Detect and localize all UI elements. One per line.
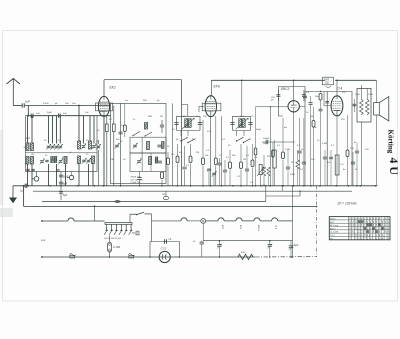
svg-text:8: 8	[373, 222, 375, 224]
antenna	[7, 79, 21, 106]
tube CL4	[331, 96, 343, 116]
svg-text:4 U: 4 U	[387, 158, 400, 176]
switch S1	[180, 137, 195, 143]
svg-text:2: 2	[352, 222, 354, 224]
voltage selector	[104, 223, 132, 235]
capacitor C15	[174, 123, 178, 125]
svg-text:2M: 2M	[310, 116, 313, 118]
rectifier box	[150, 242, 179, 258]
svg-text:8µF: 8µF	[63, 183, 68, 186]
coil L13b	[155, 157, 157, 163]
svg-text:osz: osz	[125, 100, 128, 102]
svg-text:LW: LW	[160, 116, 164, 118]
capacitor C23	[248, 123, 252, 125]
svg-text:4: 4	[352, 225, 354, 227]
svg-text:CY 2: CY 2	[330, 235, 335, 237]
svg-text:Cl 4: Cl 4	[337, 86, 343, 90]
wire bus 2	[28, 115, 110, 117]
wire CL4 top	[336, 80, 338, 96]
capacitor C16	[198, 123, 202, 125]
svg-text:25: 25	[86, 154, 89, 156]
svg-text:0.1µF 150: 0.1µF 150	[131, 182, 142, 184]
wire vert a2	[31, 116, 33, 143]
svg-text:MW: MW	[26, 138, 31, 140]
wire trafo bottom	[360, 122, 362, 186]
coil L2	[31, 143, 34, 151]
variable capacitor CV4	[81, 144, 86, 150]
polarized capacitor C41	[289, 241, 299, 257]
wire input drop	[27, 106, 29, 117]
wire left drop	[23, 185, 25, 206]
capacitor C30	[302, 101, 306, 186]
svg-text:0.25: 0.25	[207, 131, 212, 133]
svg-text:50: 50	[306, 112, 309, 114]
switch S3 line	[130, 213, 136, 215]
svg-text:30: 30	[44, 140, 47, 142]
capacitor C25	[271, 90, 280, 102]
svg-text:128: 128	[203, 116, 207, 118]
svg-text:ZF = 128 kHz: ZF = 128 kHz	[337, 202, 358, 206]
wire heater left up	[94, 206, 95, 221]
capacitor C38	[193, 241, 204, 257]
capacitor C10	[118, 132, 122, 134]
svg-text:7: 7	[361, 228, 363, 230]
svg-text:6: 6	[385, 228, 387, 230]
wire EF9 bottom	[210, 116, 212, 186]
svg-text:1: 1	[355, 225, 357, 227]
resistor R12	[254, 130, 257, 187]
svg-text:1: 1	[367, 219, 369, 221]
svg-text:2: 2	[358, 232, 360, 234]
svg-text:150: 150	[350, 148, 354, 150]
svg-text:4: 4	[349, 228, 351, 230]
svg-text:9: 9	[367, 235, 369, 237]
capacitor C6	[20, 184, 27, 193]
svg-text:300: 300	[24, 147, 27, 149]
coil L9	[64, 157, 67, 164]
capacitor C36	[114, 201, 120, 203]
trimmer C11	[160, 120, 164, 133]
capacitor C4c	[31, 169, 34, 170]
brand text	[387, 130, 400, 176]
svg-text:1n: 1n	[317, 140, 320, 142]
variable capacitor CV8b	[82, 158, 87, 164]
svg-text:5: 5	[364, 222, 366, 224]
svg-text:0.3: 0.3	[306, 92, 310, 94]
capacitor C42	[327, 150, 333, 186]
resistor R11	[251, 144, 254, 186]
svg-text:9: 9	[358, 219, 360, 221]
wire right drop	[316, 186, 318, 257]
wire drop b2	[31, 164, 33, 186]
resistor R7	[202, 120, 205, 186]
svg-text:2: 2	[349, 219, 351, 221]
ZF label	[337, 202, 358, 206]
capacitor C4	[45, 160, 48, 161]
coil L7	[51, 157, 53, 163]
svg-text:100pF: 100pF	[263, 138, 270, 140]
svg-text:EBC3: EBC3	[257, 225, 259, 231]
resistor R4	[167, 152, 170, 186]
svg-text:0.5: 0.5	[250, 182, 254, 184]
svg-text:6: 6	[352, 232, 354, 234]
wire T2 links	[237, 131, 245, 137]
svg-text:9: 9	[379, 219, 381, 221]
grid shield EK2	[96, 103, 113, 111]
svg-text:0.1: 0.1	[206, 150, 210, 152]
coil L1	[26, 143, 29, 151]
wire B1-B2 link	[282, 185, 283, 191]
capacitor C24	[245, 146, 249, 186]
dial lamp	[201, 219, 206, 224]
faint scan border frame	[3, 31, 398, 302]
svg-text:LW: LW	[31, 154, 35, 156]
svg-text:4: 4	[385, 225, 387, 227]
label 300	[24, 147, 27, 149]
resistor R13	[282, 118, 285, 186]
wire drop b6	[78, 164, 80, 186]
IF transformer T2 coils	[236, 118, 249, 129]
wire drop b1	[27, 164, 29, 186]
wire antenna bus	[13, 105, 22, 107]
ground arrow	[10, 186, 17, 203]
svg-text:a w: a w	[41, 239, 45, 242]
coil L5	[26, 157, 29, 165]
stage box top	[104, 80, 182, 186]
svg-text:8µF: 8µF	[63, 194, 68, 197]
wire EK2 bottom drop	[103, 116, 105, 185]
svg-text:1: 1	[388, 225, 390, 227]
svg-text:EK2: EK2	[330, 222, 335, 224]
svg-text:5: 5	[358, 228, 360, 230]
svg-text:pF: pF	[55, 103, 58, 105]
coil L10b	[92, 156, 95, 164]
wire drop b8	[92, 164, 94, 186]
svg-text:9: 9	[379, 235, 381, 237]
resistor R12b	[272, 142, 275, 186]
svg-text:0: 0	[367, 228, 369, 230]
svg-text:1M: 1M	[243, 159, 246, 161]
IF transformer T1 frame	[177, 116, 201, 130]
variable capacitor CV1	[46, 144, 51, 150]
resistor R1	[105, 116, 108, 186]
variable capacitor CV11	[137, 159, 142, 165]
svg-text:6: 6	[358, 225, 360, 227]
detector box	[278, 87, 305, 119]
capacitor C17	[182, 146, 186, 186]
svg-text:6: 6	[385, 219, 387, 221]
svg-text:EBC3: EBC3	[281, 87, 290, 91]
electrolytic C27	[273, 140, 276, 186]
svg-text:CL4: CL4	[275, 225, 277, 230]
svg-text:9: 9	[355, 222, 357, 224]
svg-text:990: 990	[241, 252, 245, 254]
svg-text:6: 6	[349, 235, 351, 237]
IF transformer T1 riser	[182, 105, 188, 117]
wire EBC3 left	[256, 106, 289, 186]
svg-text:50nF: 50nF	[63, 176, 69, 179]
polarized capacitor C39	[217, 240, 222, 257]
svg-text:0: 0	[385, 232, 387, 234]
coil L11	[145, 123, 148, 130]
wire drop b5	[65, 164, 67, 186]
svg-text:9: 9	[373, 219, 375, 221]
capacitor C21	[223, 160, 227, 186]
variable capacitor CV2	[50, 144, 55, 150]
svg-text:2M: 2M	[267, 156, 270, 158]
svg-text:50: 50	[228, 145, 231, 147]
svg-text:0.3: 0.3	[297, 145, 301, 147]
wire EF9 grid	[199, 106, 204, 112]
interstage transformer ZWT	[323, 77, 334, 87]
tube EF9	[205, 96, 216, 117]
svg-text:2nF: 2nF	[72, 103, 76, 105]
svg-text:0.2: 0.2	[246, 155, 250, 157]
svg-text:2: 2	[349, 222, 351, 224]
capacitor C2 inline	[31, 114, 33, 118]
oval component	[162, 191, 169, 200]
svg-text:0: 0	[352, 219, 354, 221]
svg-text:0.1: 0.1	[186, 165, 190, 167]
svg-text:7: 7	[379, 228, 381, 230]
svg-text:8: 8	[379, 232, 381, 234]
svg-text:0.1: 0.1	[277, 145, 281, 147]
bus B3	[42, 201, 266, 203]
capacitor C18	[207, 168, 211, 186]
wire drop b3	[48, 164, 50, 186]
capacitor C26	[302, 90, 306, 101]
IF transformer T2 frame	[233, 116, 251, 130]
svg-text:3: 3	[376, 219, 378, 221]
svg-text:9: 9	[373, 232, 375, 234]
tube CY2 label	[161, 247, 167, 251]
svg-text:EF 9 reg: EF 9 reg	[330, 224, 339, 227]
svg-text:4: 4	[388, 228, 390, 230]
variable capacitor CV7	[58, 159, 63, 165]
wire osc v1	[120, 103, 122, 185]
svg-text:7: 7	[364, 225, 366, 227]
IF transformer T2 riser	[241, 80, 243, 116]
wire CL4 grid	[324, 92, 331, 106]
svg-text:5: 5	[376, 222, 378, 224]
wire vert a1	[27, 116, 29, 143]
tube EK2 label	[110, 86, 116, 90]
svg-text:125: 125	[365, 149, 369, 151]
svg-text:5: 5	[349, 225, 351, 227]
svg-text:EF9: EF9	[214, 85, 220, 89]
frequency table	[329, 217, 390, 241]
svg-text:nF: nF	[193, 241, 196, 243]
svg-text:1M: 1M	[263, 143, 266, 145]
svg-text:EBC3: EBC3	[330, 228, 336, 230]
coupling rect	[335, 155, 344, 175]
wire osc v4	[150, 153, 152, 172]
capacitor C32	[323, 150, 327, 186]
wire vert a6	[78, 105, 80, 141]
svg-text:0.1: 0.1	[331, 145, 335, 147]
svg-text:5k: 5k	[176, 139, 179, 141]
svg-text:1M: 1M	[262, 185, 265, 187]
switch S4	[132, 132, 152, 137]
svg-text:2M: 2M	[196, 152, 199, 154]
capacitor C34	[355, 143, 359, 186]
svg-text:5: 5	[373, 225, 375, 227]
IF transformer T1 coils	[182, 118, 195, 129]
wire to lamp	[152, 214, 201, 242]
jack J2	[67, 172, 74, 180]
variable capacitor CV9	[115, 143, 120, 149]
wire EBC3 top	[293, 80, 295, 100]
svg-text:0.3M: 0.3M	[322, 143, 327, 145]
wire EBC3 bottom	[294, 106, 305, 186]
svg-text:pF: pF	[157, 100, 160, 102]
svg-text:1: 1	[370, 235, 372, 237]
resistor R2	[112, 106, 115, 186]
wire heater left	[41, 218, 105, 222]
svg-text:8µF: 8µF	[294, 244, 299, 247]
fuse F1	[108, 236, 121, 258]
svg-text:2x0.1µF 500: 2x0.1µF 500	[131, 179, 144, 181]
loudspeaker	[374, 80, 389, 186]
svg-text:3: 3	[388, 219, 390, 221]
mains label	[41, 239, 45, 242]
variable capacitor CV10	[133, 143, 138, 149]
wire sw up	[129, 214, 131, 222]
wire pot drop	[265, 185, 267, 196]
resistor R17	[123, 103, 126, 137]
wire cl4 in	[305, 91, 327, 92]
svg-text:T2: T2	[251, 116, 254, 118]
inner box 1	[130, 137, 166, 153]
capacitor C20	[217, 158, 221, 186]
svg-text:110 125 150 220 240: 110 125 150 220 240	[104, 238, 121, 240]
svg-text:1: 1	[382, 225, 384, 227]
svg-text:8: 8	[388, 232, 390, 234]
svg-text:7000: 7000	[355, 94, 361, 96]
svg-text:25n: 25n	[311, 159, 315, 161]
tube EF9 label	[214, 85, 220, 89]
variable capacitor CV5	[92, 144, 97, 150]
variable capacitor CV6	[40, 159, 45, 165]
capacitor C12	[157, 145, 161, 147]
heater labels	[221, 225, 277, 231]
svg-text:2nF: 2nF	[65, 103, 69, 105]
capacitor C28	[286, 150, 290, 186]
svg-text:50k: 50k	[205, 155, 209, 157]
svg-text:500: 500	[143, 100, 147, 102]
bus B7 solid	[41, 256, 255, 258]
capacitor C14	[137, 172, 141, 186]
svg-text:1: 1	[376, 235, 378, 237]
svg-text:8: 8	[361, 219, 363, 221]
svg-text:7: 7	[379, 222, 381, 224]
svg-text:50: 50	[96, 141, 99, 143]
capacitor C31	[309, 96, 313, 186]
svg-text:Körting: Körting	[387, 130, 395, 154]
coil L4	[89, 141, 92, 149]
coil L6	[31, 157, 34, 165]
coupling parts	[303, 92, 307, 186]
capacitor C8 stack2	[59, 182, 68, 185]
wire vert a9	[93, 116, 95, 144]
resistor R5	[176, 144, 179, 186]
zigzag resistor RZ1	[262, 142, 265, 186]
capacitor C22	[230, 123, 234, 125]
svg-text:1nF: 1nF	[36, 113, 40, 115]
coil L12	[147, 142, 150, 150]
coil L13	[149, 157, 152, 165]
resistor R8	[214, 116, 217, 186]
scan smudge left	[0, 130, 13, 217]
resistor R14	[319, 94, 323, 186]
svg-text:3: 3	[385, 222, 387, 224]
svg-text:ZWT: ZWT	[324, 79, 330, 81]
bus junction dots	[28, 185, 377, 187]
tube CY2	[159, 251, 170, 262]
mains plug P3	[129, 254, 135, 258]
svg-text:EF9: EF9	[239, 225, 241, 230]
svg-text:9: 9	[364, 232, 366, 234]
top bus	[211, 80, 376, 82]
wire drop b4	[56, 164, 58, 186]
wire CL4 bottom	[336, 116, 338, 186]
selector labels	[104, 238, 121, 240]
svg-text:150: 150	[325, 83, 330, 85]
svg-text:10n: 10n	[313, 127, 317, 129]
B7 junction dots	[109, 256, 294, 258]
svg-text:5: 5	[361, 225, 363, 227]
transformer top lead	[360, 85, 362, 89]
wire vert a7	[83, 116, 85, 144]
wire EF9 top	[210, 80, 212, 95]
osc labels	[131, 177, 144, 185]
svg-text:0: 0	[364, 235, 366, 237]
svg-text:2nF: 2nF	[25, 100, 30, 104]
bus B2	[33, 190, 352, 192]
wire det	[262, 138, 295, 144]
capacitor C13	[158, 161, 162, 163]
variable capacitor CV8c	[86, 158, 91, 164]
capacitor C4b	[26, 169, 29, 170]
svg-text:325: 325	[341, 119, 345, 121]
output transformer	[357, 89, 371, 123]
capacitor C7 stack1	[59, 172, 69, 201]
wire osc v3	[141, 137, 143, 171]
zigzag resistor RZ2	[267, 167, 270, 186]
svg-text:EK2: EK2	[110, 86, 116, 90]
svg-text:det: det	[284, 126, 287, 129]
svg-text:nF: nF	[169, 238, 172, 241]
ground bus B1	[13, 185, 377, 187]
svg-text:50: 50	[97, 130, 100, 132]
svg-text:4: 4	[370, 228, 372, 230]
svg-text:50: 50	[123, 159, 126, 161]
svg-text:GW: GW	[162, 194, 166, 196]
svg-text:30pF: 30pF	[47, 112, 53, 114]
svg-text:5: 5	[376, 225, 378, 227]
resistor R16 field coil	[238, 252, 253, 260]
svg-text:5WaF 100: 5WaF 100	[131, 177, 142, 179]
variable capacitor CV3	[54, 144, 59, 150]
svg-text:1: 1	[367, 222, 369, 224]
svg-text:7: 7	[352, 235, 354, 237]
svg-text:0.5M: 0.5M	[285, 149, 290, 151]
svg-text:0.5: 0.5	[341, 164, 345, 166]
svg-text:EK2: EK2	[221, 225, 223, 230]
resistor R9	[229, 150, 232, 186]
coil L12b	[162, 142, 164, 149]
wire T1 links	[181, 131, 188, 137]
